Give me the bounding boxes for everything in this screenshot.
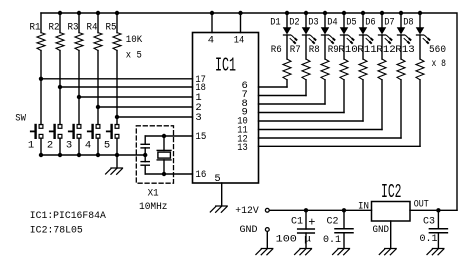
svg-text:R12: R12: [376, 44, 396, 56]
svg-text:+12V: +12V: [235, 205, 259, 217]
svg-text:SW: SW: [15, 112, 26, 124]
svg-text:D8: D8: [403, 17, 414, 29]
svg-text:IC2: IC2: [381, 181, 402, 203]
svg-text:IC1: IC1: [215, 54, 236, 76]
svg-text:R11: R11: [357, 44, 377, 56]
svg-text:X1: X1: [148, 187, 159, 199]
svg-text:5: 5: [104, 140, 110, 152]
svg-text:R2: R2: [49, 21, 60, 33]
svg-text:x 8: x 8: [432, 58, 447, 70]
svg-text:+: +: [308, 216, 315, 230]
svg-text:D5: D5: [346, 17, 357, 29]
svg-text:16: 16: [195, 169, 206, 181]
svg-text:15: 15: [195, 131, 206, 143]
svg-text:3: 3: [66, 140, 72, 152]
svg-text:10K: 10K: [126, 34, 143, 46]
svg-text:100 μ: 100 μ: [276, 234, 312, 246]
svg-text:IN: IN: [358, 201, 369, 213]
svg-text:2: 2: [47, 140, 53, 152]
svg-text:14: 14: [234, 35, 245, 47]
svg-text:IC1:PIC16F84A: IC1:PIC16F84A: [30, 210, 107, 222]
svg-text:R6: R6: [271, 44, 282, 56]
svg-text:R5: R5: [106, 21, 117, 33]
svg-text:OUT: OUT: [414, 199, 429, 211]
svg-text:GND: GND: [240, 224, 258, 236]
svg-text:IC2:78L05: IC2:78L05: [30, 225, 83, 237]
svg-text:D2: D2: [289, 17, 300, 29]
svg-text:13: 13: [237, 142, 248, 154]
svg-text:R1: R1: [30, 21, 41, 33]
svg-text:4: 4: [85, 140, 91, 152]
svg-text:560: 560: [429, 44, 446, 56]
svg-text:D1: D1: [270, 17, 281, 29]
svg-text:R7: R7: [290, 44, 301, 56]
svg-text:D3: D3: [308, 17, 319, 29]
svg-text:x 5: x 5: [126, 49, 142, 61]
svg-text:4: 4: [208, 35, 214, 47]
svg-text:3: 3: [195, 112, 201, 124]
svg-text:C3: C3: [423, 216, 435, 228]
svg-text:C1: C1: [291, 216, 303, 228]
svg-text:0.1: 0.1: [420, 233, 438, 245]
svg-text:D6: D6: [365, 17, 376, 29]
svg-text:5: 5: [214, 173, 220, 185]
svg-text:R8: R8: [309, 44, 320, 56]
svg-text:1: 1: [28, 140, 34, 152]
svg-text:R4: R4: [87, 21, 98, 33]
svg-text:D7: D7: [384, 17, 395, 29]
svg-text:R9: R9: [328, 44, 339, 56]
svg-text:R10: R10: [338, 44, 358, 56]
svg-text:0.1: 0.1: [323, 234, 341, 246]
svg-text:R13: R13: [395, 44, 415, 56]
svg-text:D4: D4: [327, 17, 338, 29]
svg-text:GND: GND: [373, 224, 390, 236]
svg-text:10MHz: 10MHz: [139, 201, 168, 213]
svg-text:C2: C2: [327, 216, 339, 228]
svg-text:R3: R3: [68, 21, 79, 33]
